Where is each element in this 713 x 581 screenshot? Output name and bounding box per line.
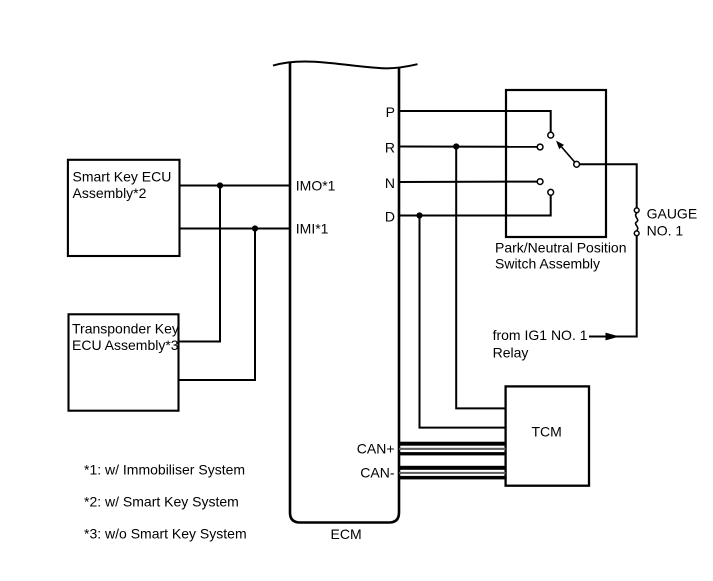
svg-text:TCM: TCM — [532, 424, 562, 440]
fuse GAUGE NO. 1 : bottom terminal — [634, 231, 639, 236]
junction node on D wire (to TCM) — [416, 212, 422, 218]
svg-text:Switch Assembly: Switch Assembly — [495, 255, 600, 271]
svg-text:*3: w/o Smart Key System: *3: w/o Smart Key System — [84, 526, 247, 542]
svg-text:*1: w/ Immobiliser System: *1: w/ Immobiliser System — [84, 462, 245, 478]
wire: R node to TCM — [456, 147, 505, 409]
svg-text:CAN-: CAN- — [360, 465, 395, 481]
wire: Transponder Key ECU to IMO node — [179, 186, 221, 342]
CAN- bus bundle (shielded pair) — [399, 466, 506, 480]
wire IMI: Smart Key ECU to ECM — [180, 228, 291, 230]
svg-text:NO. 1: NO. 1 — [647, 223, 684, 239]
wire P: ECM to switch P contact — [399, 111, 551, 132]
svg-text:CAN+: CAN+ — [357, 441, 395, 457]
wire IMO: Smart Key ECU to ECM — [180, 185, 291, 187]
junction node on IMI wire — [252, 225, 258, 231]
svg-text:IMI*1: IMI*1 — [296, 220, 329, 236]
svg-text:R: R — [385, 140, 395, 156]
svg-text:ECU Assembly*3: ECU Assembly*3 — [72, 337, 179, 353]
svg-text:Smart Key ECU: Smart Key ECU — [73, 168, 172, 184]
svg-text:*2: w/ Smart Key System: *2: w/ Smart Key System — [84, 494, 239, 510]
svg-text:D: D — [385, 209, 395, 225]
svg-text:N: N — [385, 175, 395, 191]
fuse GAUGE NO. 1 : element — [636, 213, 638, 231]
junction node on R wire (to TCM) — [453, 143, 459, 149]
wire: D node to TCM — [420, 216, 506, 428]
wire: Transponder Key ECU to IMI node — [179, 229, 256, 381]
switch contact D — [548, 189, 554, 195]
switch common contact — [574, 161, 580, 167]
wire: fuse down to IG1 feed corner — [589, 236, 637, 337]
switch arm arrowhead — [556, 141, 564, 150]
svg-text:from IG1 NO. 1: from IG1 NO. 1 — [493, 327, 588, 343]
fuse GAUGE NO. 1 : top terminal — [634, 208, 639, 213]
box TCM — [506, 386, 589, 485]
wire: switch common to fuse — [580, 164, 637, 208]
ECM outline (torn-top box, rounded bottom) — [290, 62, 399, 523]
junction node on IMO wire — [217, 182, 223, 188]
arrowhead from IG1 NO. 1 relay — [606, 333, 620, 341]
svg-text:Park/Neutral Position: Park/Neutral Position — [495, 239, 627, 255]
switch contact R — [537, 144, 543, 150]
ECM torn-edge wavy top — [273, 62, 418, 69]
svg-text:GAUGE: GAUGE — [647, 205, 698, 221]
CAN+ bus bundle (shielded pair) — [399, 442, 506, 456]
svg-text:Relay: Relay — [493, 344, 529, 360]
svg-text:IMO*1: IMO*1 — [296, 177, 336, 193]
svg-text:Assembly*2: Assembly*2 — [73, 185, 147, 201]
box U2: Smart Key ECU Assembly*2 — [68, 160, 180, 256]
box U3: Transponder Key ECU Assembly*3 — [69, 314, 179, 410]
box: Park/Neutral Position Switch Assembly — [506, 90, 606, 237]
wire D: ECM to switch D contact — [399, 195, 551, 215]
svg-text:ECM: ECM — [331, 526, 362, 542]
switch arm wiper — [562, 147, 575, 162]
switch contact P — [548, 132, 554, 138]
wire N: ECM to switch N contact — [399, 181, 537, 183]
svg-text:P: P — [386, 104, 395, 120]
switch contact N — [537, 179, 543, 185]
svg-text:Transponder Key: Transponder Key — [72, 320, 179, 336]
wire R: ECM to switch R contact — [399, 146, 537, 148]
